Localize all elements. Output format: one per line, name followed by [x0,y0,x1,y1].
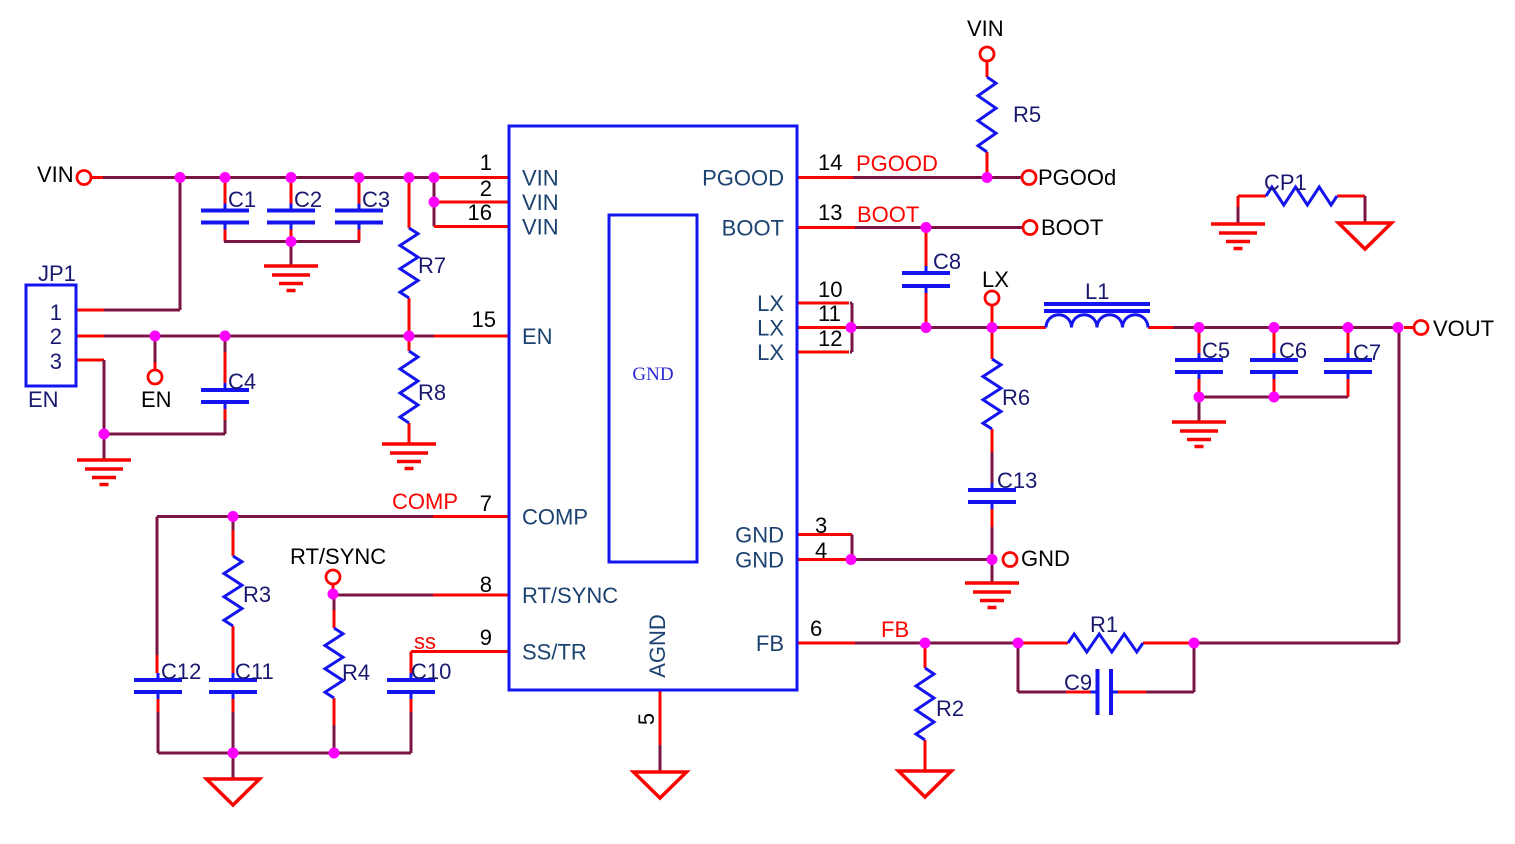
svg-text:FB: FB [881,617,909,642]
svg-text:FB: FB [756,631,784,656]
svg-text:RT/SYNC: RT/SYNC [290,544,386,569]
svg-text:BOOT: BOOT [1041,215,1103,240]
svg-text:R5: R5 [1013,102,1041,127]
svg-text:C10: C10 [411,659,451,684]
svg-text:EN: EN [522,324,553,349]
svg-text:VIN: VIN [522,166,559,191]
svg-text:C6: C6 [1279,338,1307,363]
svg-text:R2: R2 [936,696,964,721]
svg-text:12: 12 [818,326,842,351]
svg-text:C9: C9 [1064,670,1092,695]
svg-text:R8: R8 [418,380,446,405]
svg-text:L1: L1 [1085,279,1109,304]
svg-text:BOOT: BOOT [722,216,784,241]
svg-text:PGOOD: PGOOD [856,151,938,176]
svg-text:VIN: VIN [967,16,1004,41]
svg-text:2: 2 [50,324,62,349]
svg-text:COMP: COMP [522,505,588,530]
svg-text:LX: LX [757,291,784,316]
svg-text:10: 10 [818,277,842,302]
svg-text:GND: GND [735,548,784,573]
svg-text:CP1: CP1 [1264,170,1307,195]
svg-text:R3: R3 [243,582,271,607]
svg-text:BOOT: BOOT [857,202,919,227]
svg-text:C7: C7 [1353,340,1381,365]
svg-text:VIN: VIN [522,190,559,215]
svg-text:11: 11 [818,301,841,326]
svg-text:C1: C1 [228,187,256,212]
svg-text:C8: C8 [933,249,961,274]
svg-text:C3: C3 [362,187,390,212]
svg-text:SS/TR: SS/TR [522,640,587,665]
svg-text:VIN: VIN [522,215,559,240]
svg-text:R7: R7 [418,253,446,278]
svg-text:C2: C2 [294,187,322,212]
svg-text:VOUT: VOUT [1433,316,1494,341]
svg-text:LX: LX [982,267,1009,292]
svg-text:6: 6 [810,616,822,641]
svg-text:C4: C4 [228,369,256,394]
svg-text:C5: C5 [1202,338,1230,363]
svg-text:COMP: COMP [392,489,458,514]
svg-text:15: 15 [472,307,496,332]
svg-text:C12: C12 [161,659,201,684]
svg-text:3: 3 [50,349,62,374]
svg-text:AGND: AGND [645,614,670,678]
svg-text:EN: EN [28,387,59,412]
svg-text:9: 9 [480,625,492,650]
svg-text:PGOOD: PGOOD [702,166,784,191]
svg-text:GND: GND [1021,546,1070,571]
svg-text:13: 13 [818,200,842,225]
svg-text:C13: C13 [997,468,1037,493]
svg-text:LX: LX [757,316,784,341]
svg-text:R1: R1 [1090,612,1118,637]
svg-text:GND: GND [632,364,673,385]
svg-text:1: 1 [50,300,62,325]
svg-text:8: 8 [480,572,492,597]
svg-text:ss: ss [414,629,436,654]
svg-text:7: 7 [480,491,492,516]
svg-text:5: 5 [634,713,659,725]
svg-text:RT/SYNC: RT/SYNC [522,583,618,608]
svg-text:1: 1 [480,150,492,175]
svg-text:16: 16 [468,200,492,225]
svg-text:4: 4 [815,538,827,563]
svg-text:VIN: VIN [37,162,74,187]
svg-text:R6: R6 [1002,385,1030,410]
svg-text:PGOOd: PGOOd [1038,165,1116,190]
svg-text:R4: R4 [342,660,370,685]
svg-text:EN: EN [141,387,172,412]
svg-text:14: 14 [818,150,842,175]
svg-text:GND: GND [735,523,784,548]
svg-text:2: 2 [480,176,492,201]
svg-text:JP1: JP1 [38,261,76,286]
svg-text:3: 3 [815,513,827,538]
svg-text:C11: C11 [235,659,274,684]
svg-text:LX: LX [757,340,784,365]
